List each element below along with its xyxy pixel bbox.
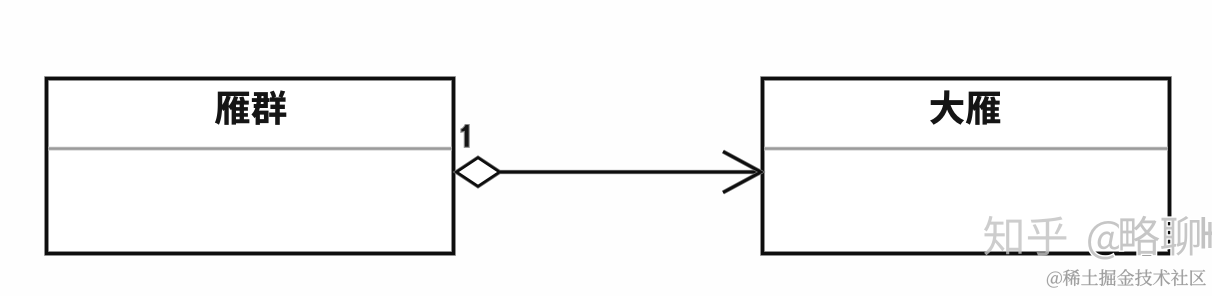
watermark @稀土掘金技术社区 bbox=[1047, 269, 1206, 287]
association line (wire) bbox=[500, 170, 761, 174]
divider line of 雁群 box bbox=[48, 147, 452, 151]
open arrowhead into 大雁 box bbox=[723, 152, 761, 193]
multiplicity label 1 bbox=[461, 125, 469, 148]
watermark 知乎 @略聊 bbox=[984, 216, 1212, 260]
title text 雁群 bbox=[215, 90, 286, 124]
class box 大雁 (wild goose) bbox=[763, 79, 1170, 254]
title text 大雁 bbox=[930, 90, 1000, 124]
class box 雁群 (goose flock) bbox=[47, 79, 454, 254]
aggregation diamond bbox=[457, 158, 500, 186]
divider line of 大雁 box bbox=[764, 147, 1168, 151]
